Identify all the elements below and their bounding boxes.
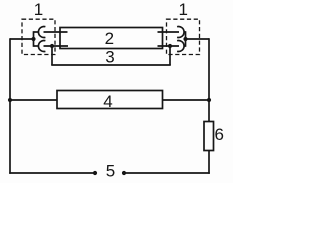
dashed box left (cap 1)	[22, 19, 55, 54]
junction node on right lower lead (end of wire 3)	[168, 44, 172, 48]
bottom wire left segment	[9, 172, 95, 174]
ballast 4 (rect)	[57, 91, 163, 109]
svg-text:1: 1	[178, 0, 187, 19]
wire 3 right vertical drop	[169, 46, 171, 65]
lead right upper (into tube)	[158, 31, 180, 33]
resistor 6 (rect)	[204, 122, 214, 151]
label 6	[214, 125, 223, 144]
filament electrode right upper (arc)	[177, 27, 184, 38]
wire cap-right to right rail	[186, 38, 210, 40]
junction node left rail / ballast branch	[8, 98, 12, 102]
wire ballast 4 to right rail	[163, 99, 210, 101]
dashed box right (cap 1)	[167, 19, 200, 54]
lead left upper (into tube)	[44, 31, 68, 33]
filament electrode right lower (arc)	[177, 40, 184, 51]
label 4	[103, 92, 112, 111]
lead left lower (into tube)	[44, 45, 69, 47]
junction node right cap	[183, 37, 187, 41]
svg-text:3: 3	[105, 48, 114, 67]
right rail upper (vertical wire)	[208, 38, 210, 121]
connector vertical left	[33, 31, 35, 47]
junction node on left lower lead (start of wire 3)	[50, 44, 54, 48]
supply terminal node left (5)	[93, 171, 97, 175]
connector stub left upper	[34, 31, 39, 33]
wire cap-left to left rail	[10, 38, 34, 40]
junction node right rail / ballast branch	[207, 98, 211, 102]
bottom wire right segment	[124, 172, 210, 174]
wire 3 left vertical drop	[51, 46, 53, 65]
wire left rail to ballast 4	[10, 99, 57, 101]
svg-text:5: 5	[106, 162, 115, 181]
filament electrode left upper (arc)	[38, 27, 45, 38]
connector vertical right	[185, 31, 187, 47]
svg-text:2: 2	[105, 29, 114, 48]
label 2	[105, 29, 114, 48]
connector stub right upper	[184, 31, 186, 33]
connector stub right lower	[184, 45, 186, 47]
tube 2 (lamp bulb)	[60, 28, 163, 49]
label 3	[105, 48, 114, 67]
supply terminal node right (5)	[122, 171, 126, 175]
filament electrode left lower (arc)	[38, 40, 45, 51]
connector stub left lower	[34, 45, 39, 47]
label 1 (left lamp cap)	[34, 0, 43, 19]
left rail (vertical wire)	[9, 38, 11, 174]
svg-text:1: 1	[34, 0, 43, 19]
lead right lower (into tube)	[158, 45, 180, 47]
junction node left cap	[31, 37, 35, 41]
wire 3 horizontal (bypass)	[51, 64, 171, 66]
label 5 (supply)	[106, 162, 115, 181]
right rail lower (vertical wire)	[208, 151, 210, 174]
svg-text:6: 6	[214, 125, 223, 144]
label 1 (right lamp cap)	[178, 0, 187, 19]
svg-text:4: 4	[103, 92, 112, 111]
